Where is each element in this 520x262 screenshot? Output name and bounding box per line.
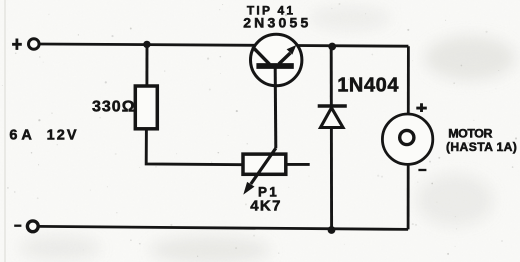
svg-text:4K7: 4K7 (250, 197, 282, 214)
svg-text:2N3055: 2N3055 (243, 15, 311, 31)
svg-text:(HASTA 1A): (HASTA 1A) (446, 140, 517, 154)
svg-text:MOTOR: MOTOR (448, 127, 492, 141)
svg-text:6: 6 (9, 128, 17, 144)
svg-text:A: A (21, 128, 32, 144)
svg-text:330Ω: 330Ω (92, 99, 136, 116)
svg-text:1N404: 1N404 (337, 75, 399, 97)
svg-text:12V: 12V (47, 128, 79, 144)
